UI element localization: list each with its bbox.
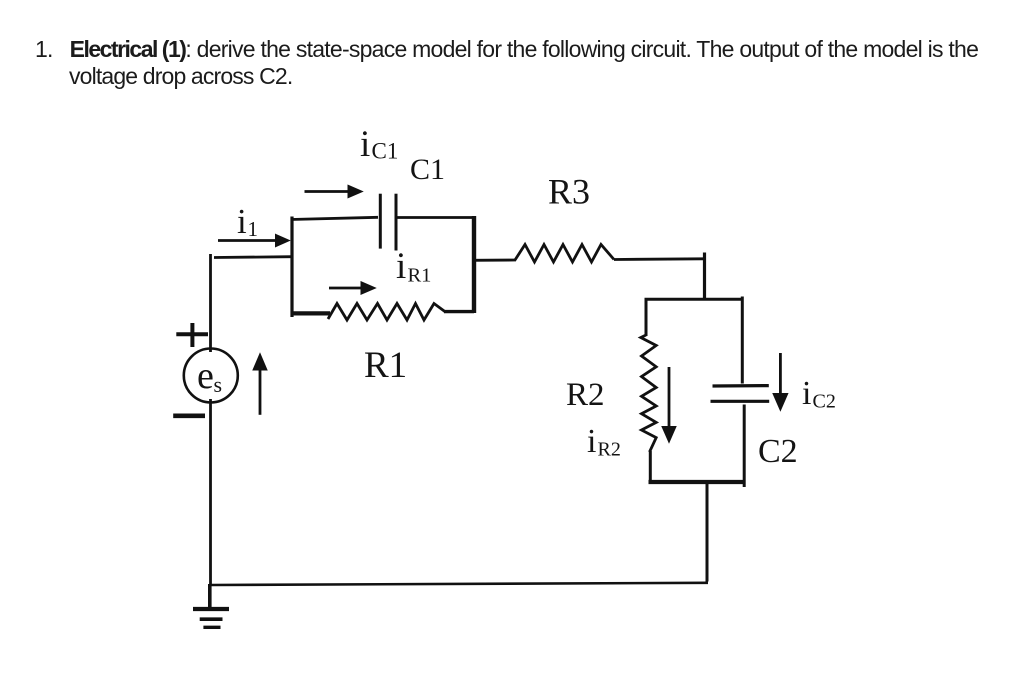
svg-text:i: i <box>237 202 247 241</box>
wire node horizontal into box <box>214 255 292 259</box>
wire box top right segment <box>398 216 477 219</box>
svg-text:i: i <box>360 124 370 165</box>
ground bar 2 <box>200 617 223 621</box>
wire left vertical top (source to node) <box>209 254 212 352</box>
svg-text:s: s <box>214 372 223 397</box>
svg-text:e: e <box>197 355 214 397</box>
current arrow i1 <box>218 239 277 242</box>
plus sign of source <box>176 332 208 336</box>
wire box top left segment <box>291 217 379 219</box>
wire right branch bottom <box>649 480 746 484</box>
wire C2 bottom connector <box>743 405 746 488</box>
svg-text:R1: R1 <box>364 345 407 386</box>
svg-text:C2: C2 <box>813 391 836 413</box>
voltage source es circle <box>184 349 238 403</box>
wire box bottom left segment <box>291 311 331 315</box>
ground bar 1 <box>193 607 229 611</box>
capacitor C2 plates <box>713 384 769 388</box>
svg-text:R3: R3 <box>548 172 590 212</box>
wire R2 top connector <box>645 299 648 336</box>
wire box left vertical <box>290 217 293 318</box>
wire from box to R3 <box>472 259 516 262</box>
ground stub <box>208 584 212 609</box>
svg-text:C1: C1 <box>372 139 399 164</box>
ground bar 3 <box>203 626 220 629</box>
resistor R2 zigzag <box>641 335 656 452</box>
svg-text:R2: R2 <box>566 377 605 413</box>
wire C2 top connector <box>741 297 744 384</box>
current arrow iC2 down <box>779 353 782 395</box>
wire R2 bottom connector <box>649 451 652 483</box>
svg-text:R2: R2 <box>598 439 621 461</box>
wire right branch top <box>645 298 744 301</box>
svg-text:i: i <box>802 375 811 412</box>
wire left vertical lower (source to ground) <box>209 399 212 585</box>
svg-text:1: 1 <box>248 217 259 241</box>
svg-text:i: i <box>587 423 596 460</box>
wire box bottom right segment <box>444 310 474 313</box>
capacitor C1 plates <box>379 194 382 249</box>
current arrow iR1 <box>329 287 362 290</box>
wire bottom feed vertical <box>706 484 709 582</box>
svg-text:C2: C2 <box>758 433 798 470</box>
svg-text:C1: C1 <box>410 153 445 186</box>
resistor R1 zigzag <box>328 304 446 321</box>
wire bottom long horizontal <box>211 583 708 585</box>
wire box right vertical <box>472 216 476 313</box>
minus sign of source <box>173 413 205 418</box>
current arrow iC1 <box>305 190 350 193</box>
wire feed vertical down to right branch <box>703 253 706 300</box>
current arrow up beside source <box>259 368 262 415</box>
resistor R3 zigzag <box>515 245 614 263</box>
current arrow iR2 down <box>668 367 671 428</box>
svg-text:i: i <box>396 246 406 287</box>
wire R3 to right branch <box>614 257 703 261</box>
svg-text:R1: R1 <box>408 265 432 287</box>
